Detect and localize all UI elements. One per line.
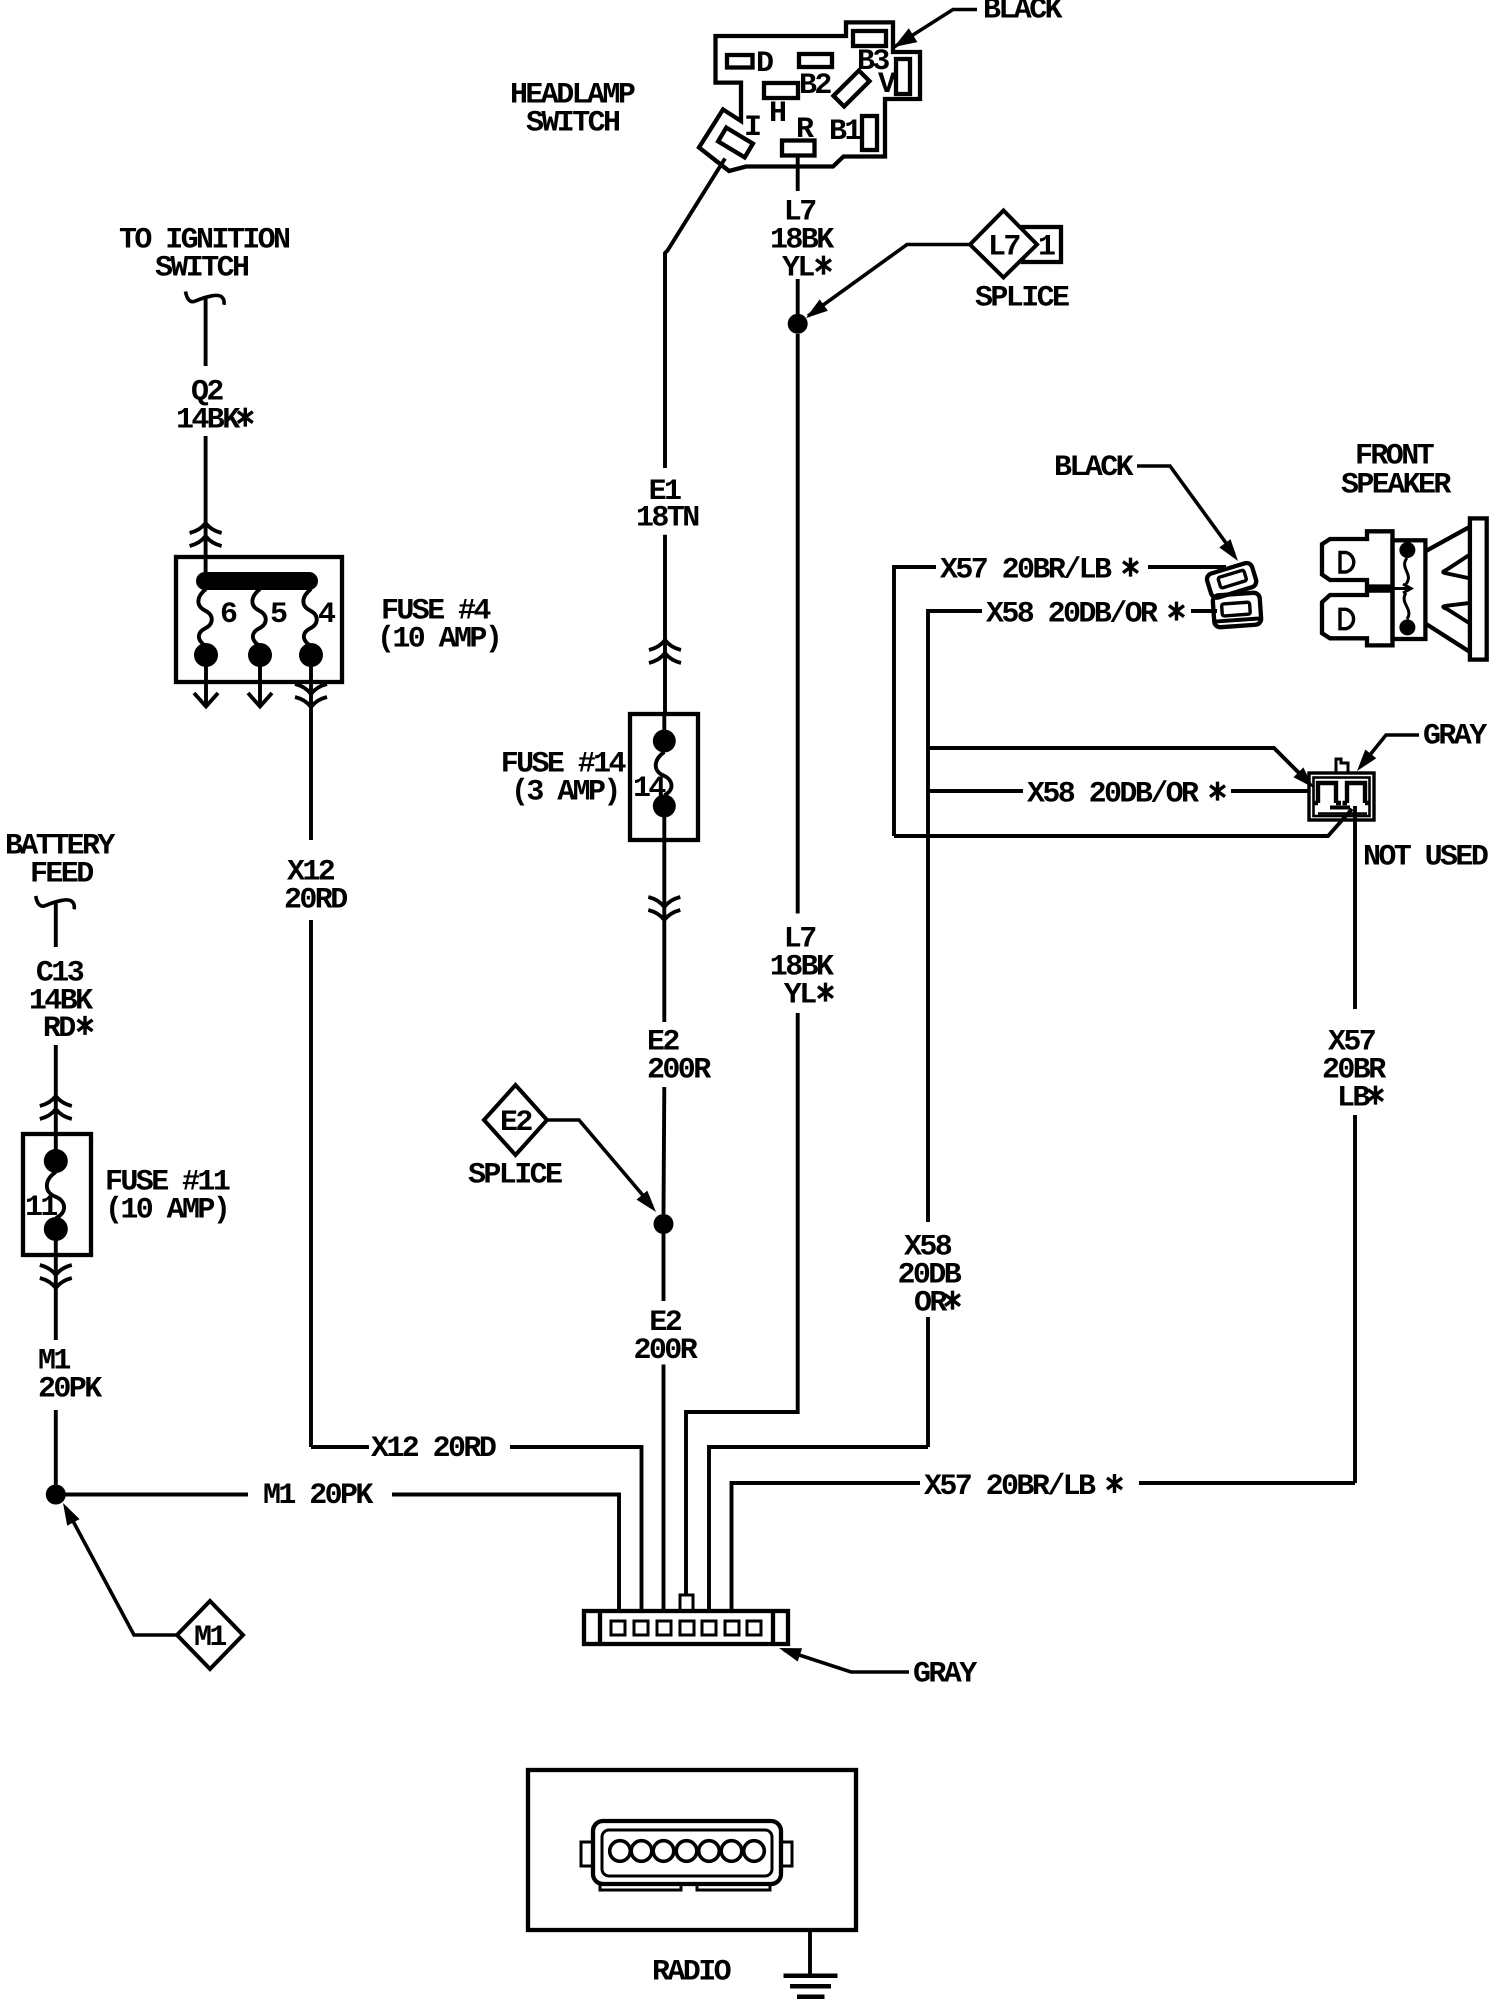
wire X58 second label right segment: [1231, 789, 1308, 793]
arrowhead GRAY bottom: [779, 1648, 802, 1662]
inline connector chevrons Q2: [190, 523, 222, 546]
svg-text:NOT USED: NOT USED: [1363, 841, 1488, 875]
wire L7 label: [770, 196, 834, 286]
wire X58 branch to not-used connector: [928, 748, 1305, 779]
label FUSE #11: [105, 1166, 230, 1228]
svg-text:FEED: FEED: [30, 858, 93, 892]
radio harness connector pin 1: [611, 1621, 625, 1635]
arrowhead GRAY right: [1357, 750, 1376, 772]
wire X12 from fuse pin 4: [309, 663, 313, 840]
svg-text:11: 11: [25, 1191, 57, 1225]
wire Q2 lower: [204, 436, 208, 572]
wire X57 horizontal left into radio: [732, 1483, 921, 1611]
front speaker terminal dot lower: [1399, 619, 1415, 635]
svg-text:GRAY: GRAY: [913, 1658, 977, 1692]
svg-text:14: 14: [633, 772, 666, 806]
wire L7 into radio: [686, 1013, 798, 1595]
fuse pin dot 4: [299, 643, 323, 667]
wire X12 vertical lower: [309, 920, 313, 1447]
wire X57 loop to not-used connector: [894, 809, 1352, 836]
radio connector face right tab: [781, 1842, 792, 1866]
fuse element 4: [303, 589, 316, 647]
arrowhead splice E2: [637, 1191, 657, 1212]
pin V: [896, 59, 910, 94]
svg-text:GRAY: GRAY: [1423, 720, 1487, 754]
front speaker cone fold lower: [1443, 603, 1470, 624]
front speaker lower plug: [1322, 591, 1393, 646]
front speaker upper plug D hole: [1340, 553, 1354, 573]
wire X58 second label left segment: [928, 789, 1023, 793]
label FUSE #4: [377, 595, 500, 657]
wire X58 vertical label: [898, 1231, 962, 1321]
svg-text:(3 AMP): (3 AMP): [511, 776, 619, 810]
fuse 11 bottom dot: [44, 1217, 68, 1241]
front speaker coil wire lower: [1404, 593, 1409, 619]
wire E2 lower label: [634, 1306, 698, 1368]
radio harness connector pin 5: [702, 1621, 716, 1635]
wire X58 to speaker connector: [1191, 609, 1217, 613]
inline connector chevrons C13: [40, 1096, 72, 1119]
wire M1 vertical label: [38, 1345, 102, 1407]
fuse pin 6 arrowhead: [194, 693, 218, 707]
pin R: [782, 141, 815, 156]
leader GRAY right: [1361, 735, 1419, 766]
wire X58 vertical lower: [926, 1317, 930, 1447]
wire X58 top segment: [928, 611, 982, 1222]
wire E2 from fuse 14: [662, 840, 666, 1022]
wire R pin to L7 label: [796, 156, 800, 192]
svg-text:RD: RD: [43, 1012, 75, 1046]
front speaker lower plug D hole: [1340, 609, 1354, 628]
svg-text:X12 20RD: X12 20RD: [371, 1432, 496, 1466]
svg-text:D: D: [756, 47, 773, 81]
leader splice L7: [808, 245, 970, 317]
wire X57 vertical lower: [1353, 1115, 1357, 1483]
svg-text:V: V: [878, 68, 896, 102]
svg-text:SPLICE: SPLICE: [975, 282, 1069, 316]
svg-text:H: H: [769, 97, 785, 131]
svg-text:X58 20DB/OR: X58 20DB/OR: [1027, 778, 1199, 812]
fuse 14 bottom dot: [653, 795, 676, 818]
wire Q2 upper: [204, 299, 208, 366]
fuse element 5: [252, 589, 265, 647]
front speaker terminal dot upper: [1399, 542, 1415, 558]
radio harness connector pin 7: [747, 1621, 761, 1635]
arrowhead splice L7: [806, 299, 828, 318]
svg-text:4: 4: [318, 598, 336, 632]
fuse 14 element: [656, 752, 672, 795]
splice L7 reference box 1: [1023, 227, 1061, 262]
fuse block FUSE #4 box: [176, 557, 342, 682]
pin B3: [853, 31, 886, 46]
radio connector face bottom tab right: [697, 1884, 770, 1890]
wire X57 to speaker connector: [1148, 565, 1226, 569]
fuse 11 element: [47, 1172, 64, 1218]
front speaker coil wire upper: [1405, 558, 1409, 584]
leader BLACK right: [1137, 466, 1234, 554]
svg-text:X57 20BR/LB: X57 20BR/LB: [924, 1470, 1096, 1504]
svg-text:SWITCH: SWITCH: [155, 252, 248, 286]
leader splice M1: [66, 1508, 177, 1635]
fuse block bus bar: [196, 572, 318, 590]
wire E1 label: [636, 475, 699, 535]
label HEADLAMP SWITCH: [510, 79, 635, 141]
inline connector chevrons M1: [40, 1265, 72, 1288]
pin B2: [799, 54, 832, 67]
not-used connector gray: [1309, 759, 1374, 820]
front speaker magnet: [1470, 518, 1487, 659]
svg-text:RADIO: RADIO: [652, 1956, 731, 1990]
svg-text:LB: LB: [1337, 1082, 1370, 1116]
wire X57 horizontal right: [1139, 1481, 1355, 1485]
svg-text:18TN: 18TN: [636, 501, 699, 535]
ground symbol: [784, 1974, 838, 2000]
offpage connector squiggle battery: [36, 896, 75, 909]
label BATTERY FEED: [5, 830, 115, 892]
wire I pin to E1: [665, 159, 725, 469]
radio harness connector pin 2: [634, 1621, 648, 1635]
label TO IGNITION SWITCH: [119, 224, 290, 286]
radio harness connector pin 3: [657, 1621, 671, 1635]
svg-text:M1: M1: [194, 1621, 226, 1655]
arrowhead BLACK top: [894, 28, 917, 47]
svg-text:SWITCH: SWITCH: [526, 107, 619, 141]
radio connector face outer: [593, 1821, 781, 1884]
front speaker cone fold upper: [1443, 555, 1470, 579]
fuse 11 top lead: [54, 1134, 58, 1152]
fuse pin 5 arrowhead: [248, 693, 272, 707]
fuse 11 top dot: [44, 1149, 68, 1173]
wire X12 horizontal left: [311, 1445, 369, 1449]
splice M1 diamond: [177, 1601, 243, 1669]
inline connector chevrons E2: [648, 897, 680, 920]
svg-text:20PK: 20PK: [38, 1373, 102, 1407]
splice E2 diamond: [484, 1085, 547, 1155]
label FRONT SPEAKER: [1341, 440, 1451, 503]
radio harness connector body: [584, 1611, 788, 1644]
wire L7 lower (below splice dot): [796, 334, 800, 914]
wire X12 horizontal right into radio: [510, 1447, 642, 1611]
svg-text:B1: B1: [829, 115, 861, 149]
svg-text:R: R: [796, 113, 814, 147]
svg-text:I: I: [744, 111, 760, 145]
svg-text:1: 1: [1038, 231, 1055, 265]
svg-text:6: 6: [220, 598, 237, 632]
junction dot M1: [46, 1485, 66, 1505]
front speaker coil arrow: [1392, 584, 1411, 593]
wire X12 vertical label: [284, 856, 347, 918]
wire X57 vertical label: [1322, 1026, 1386, 1116]
radio box: [528, 1770, 856, 1930]
inline connector chevrons X12: [295, 684, 327, 707]
radio ground lead: [808, 1930, 812, 1975]
radio connector face bottom tab left: [600, 1884, 681, 1890]
label FUSE #14: [501, 748, 627, 810]
fuse pin 6 lead: [204, 663, 208, 705]
wire X58 horizontal into radio: [709, 1447, 928, 1611]
wire E1 lower: [663, 535, 667, 714]
arrowhead splice M1: [63, 1503, 80, 1526]
svg-text:OR: OR: [914, 1287, 947, 1321]
offpage connector squiggle ignition: [186, 292, 225, 305]
svg-text:(10 AMP): (10 AMP): [377, 623, 500, 657]
fuse pin dot 6: [194, 643, 218, 667]
speaker pigtail connector lower terminal: [1212, 592, 1261, 627]
wire X57 top segment: [894, 567, 936, 836]
wire M1 vertical lower: [54, 1410, 58, 1495]
wire E2 into radio: [662, 1365, 666, 1612]
radio harness connector pin 6: [725, 1621, 739, 1635]
svg-text:20RD: 20RD: [284, 884, 347, 918]
svg-text:BLACK: BLACK: [983, 0, 1063, 28]
wire C13 upper: [54, 904, 58, 948]
wire X57 down from not-used connector: [1353, 806, 1357, 1009]
fuse FUSE #14 box: [630, 714, 698, 840]
radio harness connector pin 4: [680, 1621, 694, 1635]
wire C13 lower: [54, 1045, 58, 1134]
svg-text:SPLICE: SPLICE: [468, 1159, 562, 1193]
pin B1: [862, 116, 877, 150]
svg-text:X58 20DB/OR: X58 20DB/OR: [986, 598, 1158, 632]
wire E2 upper label: [647, 1026, 711, 1088]
svg-text:200R: 200R: [634, 1334, 698, 1368]
front speaker upper plug: [1322, 531, 1393, 586]
front speaker cone: [1425, 527, 1470, 652]
splice dot L7: [788, 314, 808, 334]
radio connector face pin circles: [610, 1841, 765, 1862]
fuse FUSE #11 box: [23, 1134, 91, 1255]
svg-text:L7: L7: [988, 231, 1019, 265]
svg-text:YL: YL: [784, 979, 816, 1013]
svg-text:(10 AMP): (10 AMP): [105, 1194, 228, 1228]
radio harness connector pin4 riser: [680, 1595, 693, 1611]
wire M1 horizontal left: [65, 1493, 248, 1497]
pin D: [727, 55, 753, 68]
svg-text:BLACK: BLACK: [1054, 451, 1134, 485]
leader GRAY bottom: [784, 1650, 909, 1672]
fuse element 6: [198, 589, 211, 647]
leader splice E2: [547, 1120, 652, 1206]
wire E2 mid: [662, 1087, 667, 1214]
fuse pin dot 5: [248, 643, 272, 667]
wire M1 horizontal right: [392, 1495, 619, 1612]
fuse 14 top lead: [662, 714, 666, 733]
svg-text:B2: B2: [799, 69, 831, 103]
wire Q2 label: [176, 376, 253, 438]
pin I terminal: [718, 128, 753, 158]
svg-text:E2: E2: [500, 1106, 532, 1140]
wire L7 to splice dot: [796, 279, 800, 314]
svg-text:14BK: 14BK: [176, 404, 240, 438]
svg-text:SPEAKER: SPEAKER: [1341, 469, 1451, 503]
splice L7 diamond: [970, 211, 1037, 278]
wire E2 below dot: [662, 1234, 666, 1301]
arrowhead X58 branch: [1294, 768, 1315, 789]
wire L7 lower label: [770, 923, 834, 1013]
front speaker terminal block: [1393, 540, 1426, 639]
radio connector face left tab: [581, 1842, 593, 1866]
leader BLACK top: [894, 10, 977, 48]
pin H: [764, 83, 798, 98]
fuse 14 bottom lead: [662, 815, 666, 840]
svg-text:X57 20BR/LB: X57 20BR/LB: [940, 554, 1112, 588]
svg-text:M1 20PK: M1 20PK: [263, 1479, 373, 1513]
headlamp switch connector body: [699, 22, 920, 171]
inline connector chevrons E1: [649, 640, 681, 663]
fuse pin 5 lead: [258, 663, 262, 705]
radio connector face inner: [602, 1830, 772, 1876]
arrowhead BLACK right: [1219, 539, 1238, 561]
speaker pigtail connector upper terminal: [1205, 562, 1257, 600]
fuse 14 top dot: [653, 730, 676, 753]
pin B2 diagonal terminal: [834, 71, 870, 107]
wire M1 from fuse 11: [54, 1238, 58, 1340]
wire C13 label: [29, 957, 93, 1046]
splice dot E2: [654, 1214, 674, 1234]
svg-text:200R: 200R: [647, 1054, 711, 1088]
svg-text:5: 5: [270, 598, 287, 632]
